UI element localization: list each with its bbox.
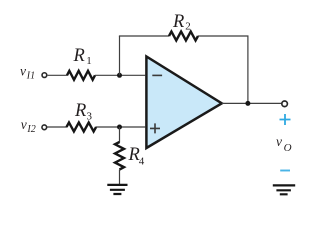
plus polarity mark (cyan)	[280, 114, 291, 125]
op-amp inverting input marker (minus)	[152, 74, 162, 76]
terminal vI1	[42, 73, 47, 78]
svg-text:v: v	[20, 64, 26, 79]
svg-text:I2: I2	[26, 124, 35, 135]
wire: op-amp output to terminal	[222, 102, 282, 104]
op-amp non-inverting input marker (plus)	[150, 123, 160, 133]
svg-text:R: R	[172, 12, 184, 32]
svg-text:O: O	[284, 142, 292, 154]
wire: R1 to op-amp inverting input	[95, 74, 145, 76]
wire: top feedback left segment	[119, 35, 169, 37]
svg-text:R: R	[74, 101, 86, 121]
terminal vI2	[42, 125, 47, 130]
svg-text:4: 4	[139, 155, 145, 167]
wire: node C down to R4	[119, 127, 121, 143]
op-amp U1	[146, 57, 221, 149]
wire: top feedback right segment and down to output	[198, 36, 248, 103]
svg-text:I1: I1	[26, 71, 35, 82]
node A junction dot	[117, 73, 122, 78]
svg-text:3: 3	[87, 111, 93, 123]
terminal vO output	[282, 101, 288, 107]
resistor R3	[67, 123, 97, 132]
wire: terminal vI2 to R3	[47, 126, 67, 128]
svg-text:v: v	[21, 117, 27, 132]
wire: node A up to feedback	[119, 36, 121, 75]
wire: R3 to op-amp non-inverting input	[96, 126, 145, 128]
wire: R4 to ground	[119, 170, 121, 185]
node B output junction dot	[245, 101, 250, 106]
svg-text:2: 2	[185, 21, 191, 33]
minus polarity mark (cyan)	[280, 170, 290, 172]
ground (below output terminal)	[273, 185, 295, 194]
svg-text:1: 1	[86, 55, 92, 67]
resistor R4	[115, 142, 124, 170]
ground (below R4)	[107, 185, 127, 194]
node C junction dot	[117, 125, 122, 130]
resistor R1	[67, 71, 95, 80]
resistor R2	[169, 32, 198, 41]
svg-text:v: v	[276, 134, 282, 149]
svg-text:R: R	[73, 46, 85, 66]
wire: terminal vI1 to R1	[48, 74, 68, 76]
